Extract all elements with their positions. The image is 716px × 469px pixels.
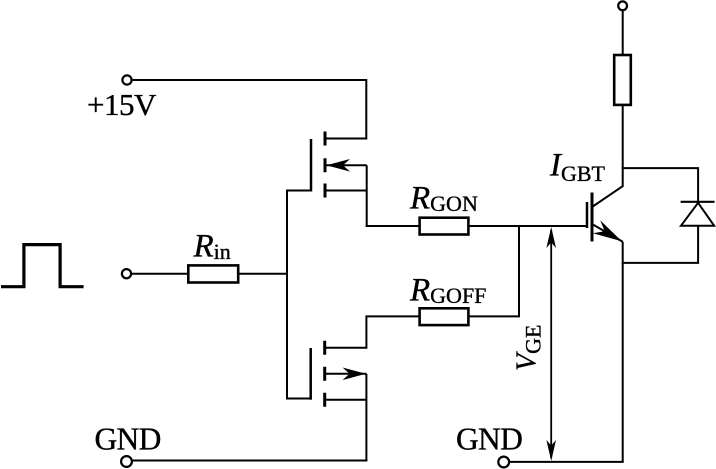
terminal +15V bbox=[122, 75, 131, 84]
arrow VGE bbox=[550, 230, 552, 458]
arrowhead VGE top bbox=[546, 227, 556, 248]
igbt emitter arrow bbox=[593, 220, 622, 241]
svg-text:GND: GND bbox=[456, 422, 522, 457]
wire M1 output to RGON bbox=[366, 225, 420, 227]
wire M2 source to ground bbox=[365, 374, 367, 461]
diode D1 cathode bar bbox=[681, 201, 715, 203]
mosfet M2 source lead bbox=[326, 399, 367, 401]
wire RGON to IGBT gate bbox=[468, 225, 587, 227]
wire collector up to resistor bbox=[622, 105, 624, 187]
mosfet M1 drain lead bbox=[326, 190, 367, 192]
wire gate bus vertical bbox=[286, 190, 288, 400]
mosfet M2 body lead bbox=[326, 373, 367, 375]
wire collector to diode bbox=[622, 168, 698, 202]
mosfet M2 gate lead bbox=[286, 398, 311, 400]
mosfet M1 gate lead bbox=[286, 190, 311, 192]
mosfet M2 channel dashes bbox=[323, 341, 326, 407]
wire emitter down to ground rail bbox=[622, 242, 624, 462]
terminal GND right bbox=[498, 457, 509, 468]
wire input to Rin bbox=[132, 273, 188, 275]
mosfet M1 body lead bbox=[326, 164, 367, 166]
ground rail left bbox=[132, 460, 368, 462]
wire RGOFF to gate wire junction bbox=[468, 225, 519, 316]
wire diode to emitter node bbox=[622, 226, 698, 263]
resistor top (collector) bbox=[614, 55, 631, 105]
wire +15V supply to M1 source bbox=[133, 80, 367, 139]
terminal GND left bbox=[121, 456, 132, 467]
ground rail right bbox=[509, 461, 624, 463]
mosfet M1 channel dashes bbox=[324, 132, 327, 198]
resistor RGOFF bbox=[420, 308, 469, 325]
mosfet M2 drain lead bbox=[326, 347, 367, 349]
wire M1 output join bbox=[366, 165, 368, 227]
igbt emitter line bbox=[592, 224, 623, 242]
wire M2 drain to RGOFF bbox=[366, 316, 419, 348]
mosfet M2 body arrow bbox=[343, 368, 366, 381]
igbt body bar bbox=[591, 193, 594, 242]
diode D1 triangle bbox=[681, 203, 714, 226]
arrowhead VGE bottom bbox=[546, 440, 556, 461]
mosfet M1 body arrow bbox=[327, 159, 351, 172]
terminal top bbox=[618, 1, 627, 10]
svg-text:+15V: +15V bbox=[87, 87, 157, 122]
resistor Rin bbox=[188, 265, 238, 282]
svg-text:GND: GND bbox=[95, 422, 161, 457]
mosfet M1 gate bar bbox=[310, 139, 313, 192]
pulse input waveform bbox=[1, 245, 84, 287]
igbt collector line bbox=[592, 186, 623, 207]
resistor RGON bbox=[420, 218, 469, 235]
wire Rin to gate node bbox=[238, 273, 288, 275]
igbt gate bar bbox=[586, 202, 589, 228]
mosfet M2 gate bar bbox=[309, 348, 312, 400]
terminal input bbox=[122, 269, 131, 278]
wire resistor to top terminal bbox=[622, 10, 624, 55]
